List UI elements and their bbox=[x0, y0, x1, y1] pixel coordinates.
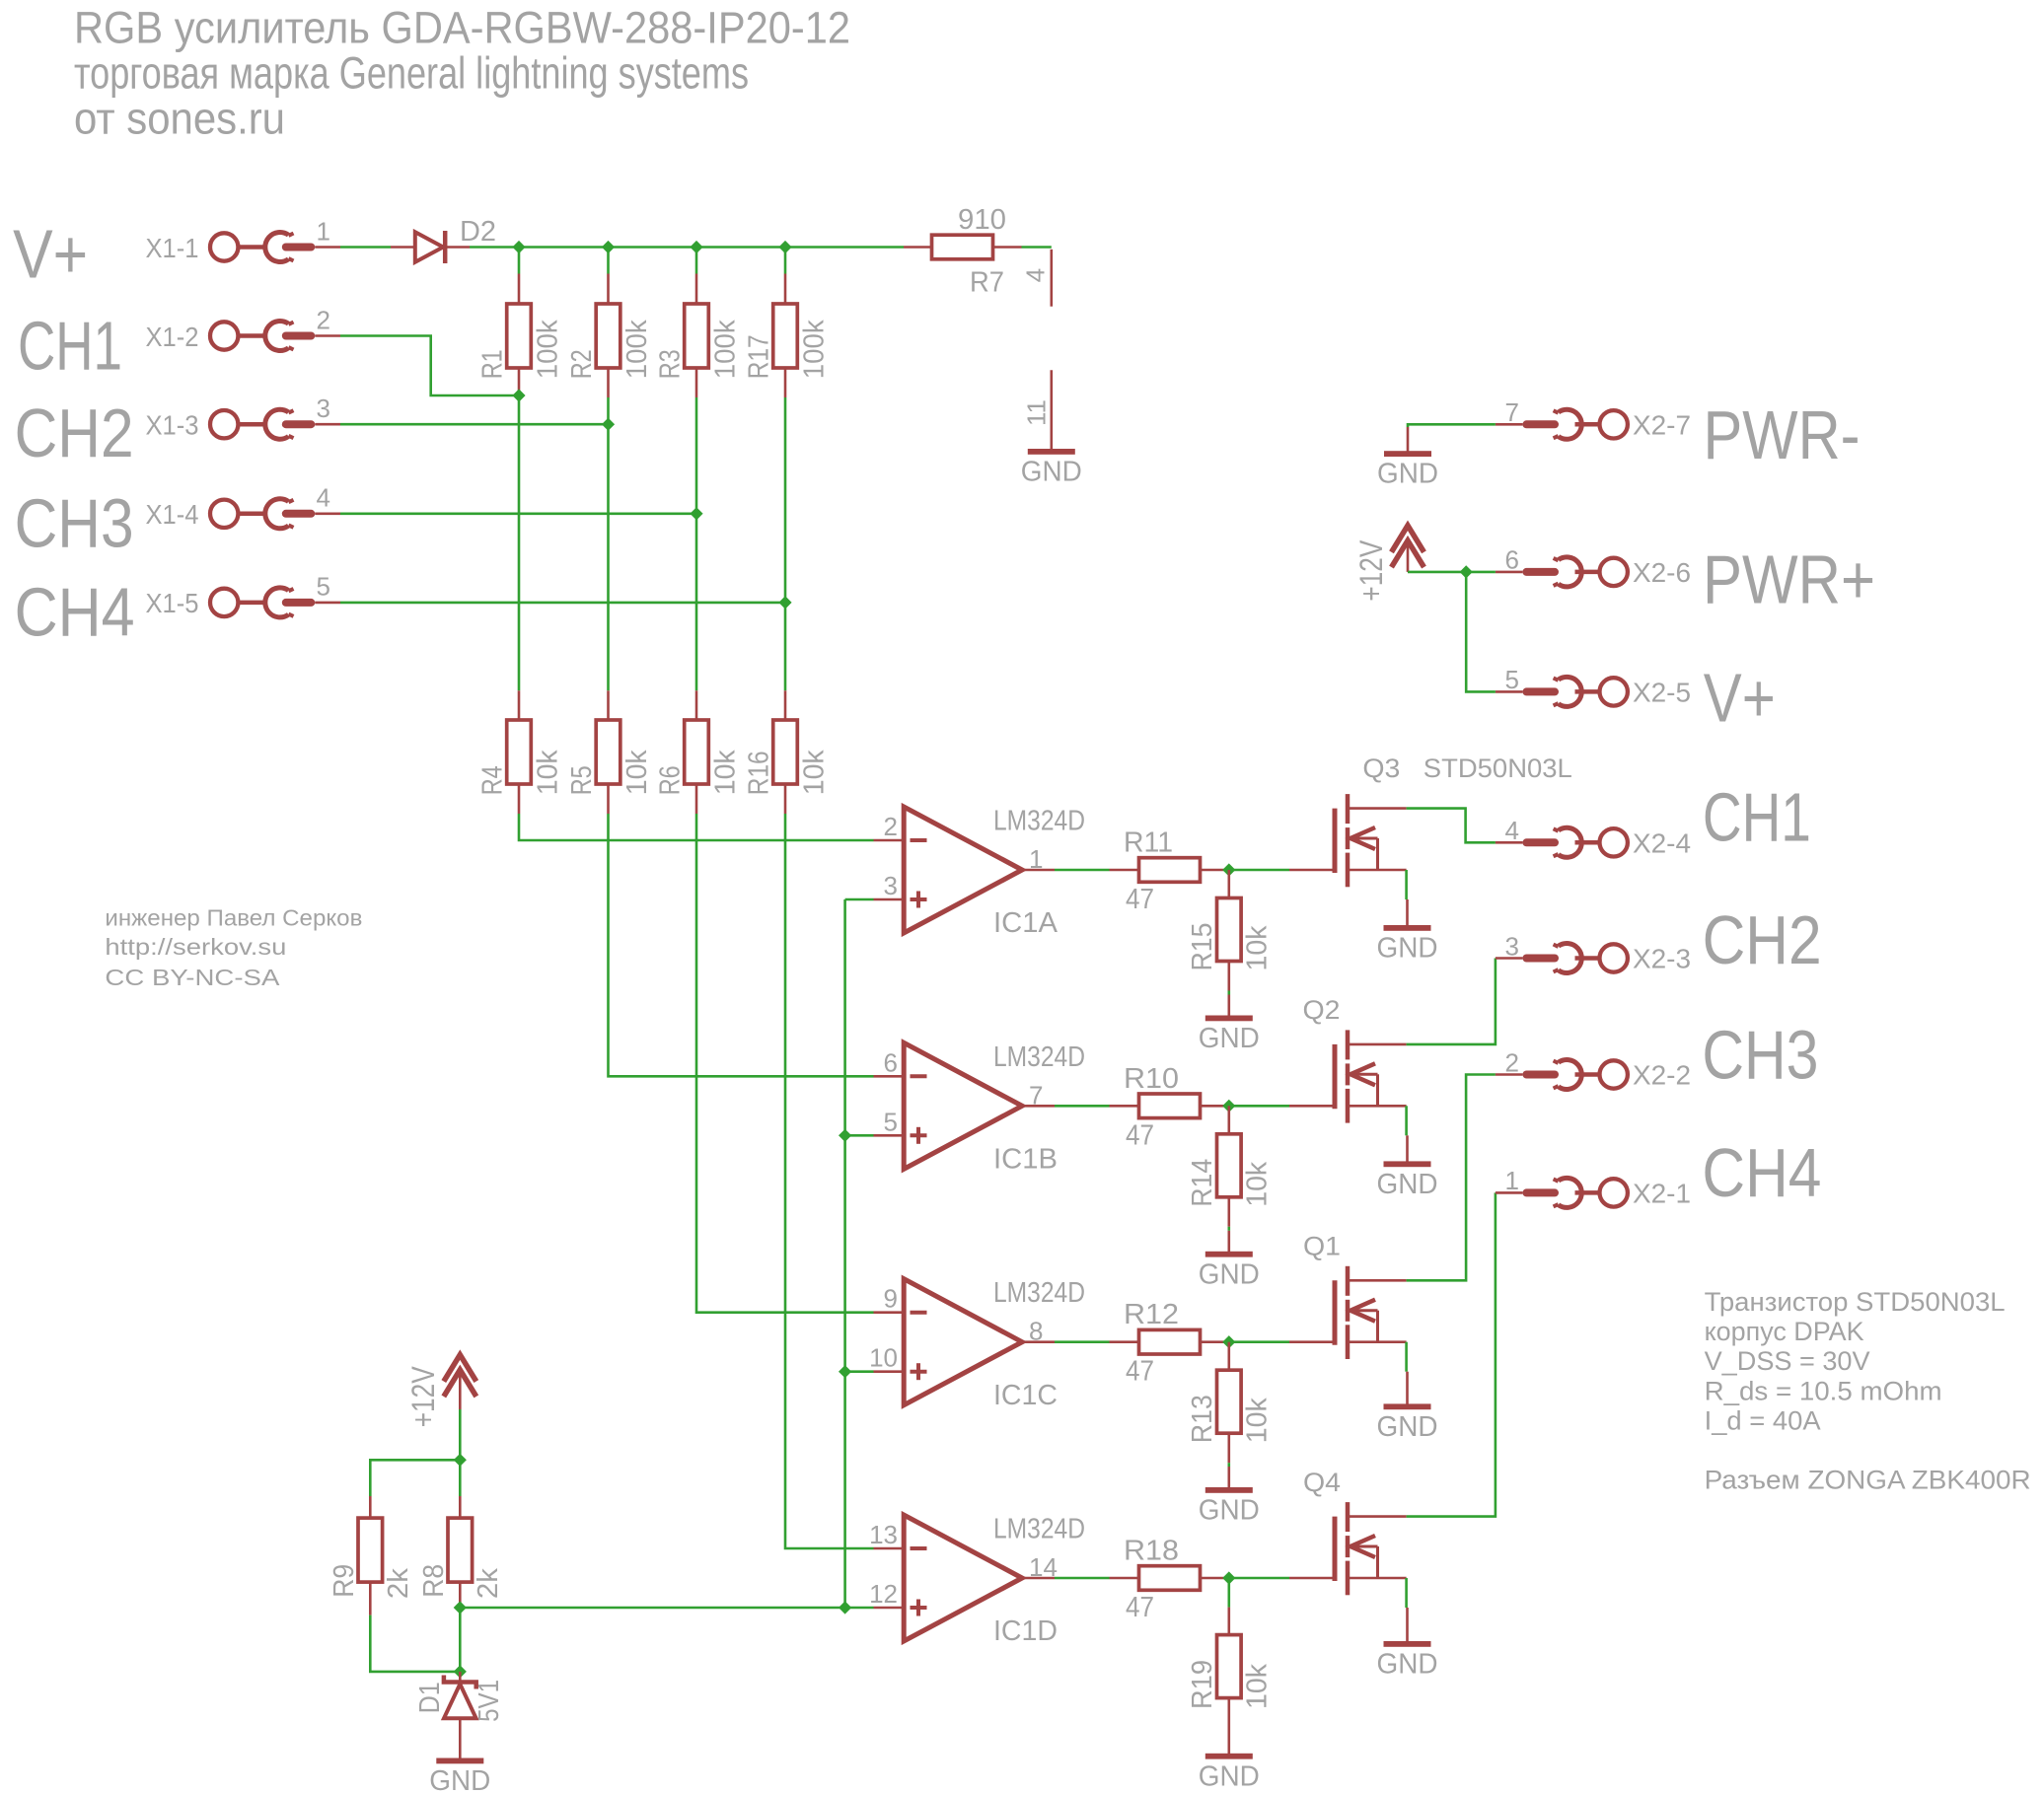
svg-text:2: 2 bbox=[1505, 1047, 1519, 1077]
+12V supply symbol at divider bbox=[444, 1355, 476, 1409]
diode D2 bbox=[391, 231, 470, 263]
pin stub top of R13 bbox=[1228, 1342, 1231, 1371]
svg-text:V_DSS = 30V: V_DSS = 30V bbox=[1705, 1346, 1870, 1376]
wire R15 to ground bbox=[1228, 991, 1231, 995]
svg-text:47: 47 bbox=[1126, 1119, 1154, 1151]
resistor R15 (10k) bbox=[1217, 898, 1242, 962]
pin stub right of R12 bbox=[1201, 1340, 1229, 1343]
pin stub bottom of R14 bbox=[1228, 1197, 1231, 1227]
pin stub left of R10 bbox=[1110, 1105, 1139, 1108]
wire R17 bottom to CH4 junction bbox=[784, 397, 787, 603]
wire IC1C output to R12 bbox=[1055, 1340, 1110, 1343]
pin stub top of R1 bbox=[518, 274, 521, 305]
pin stub top of R16 bbox=[784, 690, 787, 720]
svg-text:1: 1 bbox=[317, 216, 330, 246]
wire node to Q2 gate bbox=[1229, 1105, 1289, 1108]
svg-text:LM324D: LM324D bbox=[993, 1041, 1085, 1073]
connector X2-7 bbox=[1496, 409, 1628, 439]
pin stub bottom of R2 bbox=[607, 368, 610, 397]
connector X1-1 bbox=[210, 233, 340, 262]
svg-text:5: 5 bbox=[884, 1107, 898, 1136]
wire R7 to IC1 power pin 4 bbox=[1022, 246, 1052, 249]
junction bus at IC1D pin12 bbox=[839, 1601, 851, 1614]
op-amp IC1B bbox=[874, 1042, 1056, 1169]
svg-text:http://serkov.su: http://serkov.su bbox=[105, 934, 286, 960]
wire CH3 down to R6 bbox=[695, 514, 698, 691]
ground for Q2 source bbox=[1384, 1135, 1431, 1167]
svg-text:Разъем ZONGA ZBK400R: Разъем ZONGA ZBK400R bbox=[1705, 1466, 2031, 1495]
svg-text:8: 8 bbox=[1029, 1317, 1043, 1346]
pin stub bottom of R15 bbox=[1228, 962, 1231, 991]
svg-text:GND: GND bbox=[1377, 1649, 1438, 1681]
svg-text:X1-4: X1-4 bbox=[146, 499, 199, 530]
resistor R1 (100k) bbox=[507, 304, 532, 368]
pin stub top of R4 bbox=[518, 690, 521, 720]
connector X1-4 bbox=[210, 499, 340, 529]
wire V+ to R1 bbox=[518, 248, 521, 274]
wire R4 to IC1A pin2 bbox=[519, 814, 874, 840]
svg-text:R9: R9 bbox=[328, 1564, 360, 1598]
svg-text:от sones.ru: от sones.ru bbox=[74, 94, 285, 144]
wire CH1 net jog bbox=[340, 336, 519, 396]
svg-text:Q1: Q1 bbox=[1303, 1232, 1341, 1261]
resistor R16 (10k) bbox=[773, 720, 798, 784]
pin stub left of R18 bbox=[1110, 1577, 1139, 1580]
ground for R19 bbox=[1205, 1754, 1253, 1759]
svg-text:7: 7 bbox=[1029, 1080, 1043, 1110]
svg-text:2k: 2k bbox=[473, 1568, 504, 1599]
wire IC1D output to R18 bbox=[1055, 1577, 1110, 1580]
svg-text:D1: D1 bbox=[414, 1682, 446, 1713]
svg-text:9: 9 bbox=[884, 1284, 898, 1314]
resistor R6 (10k) bbox=[685, 720, 709, 784]
svg-text:CH2: CH2 bbox=[15, 395, 134, 471]
svg-text:Q2: Q2 bbox=[1303, 995, 1341, 1025]
svg-text:1: 1 bbox=[1505, 1166, 1519, 1195]
junction V+ rail x=706 bbox=[690, 241, 702, 253]
wire R6 to IC1C pin9 bbox=[696, 814, 874, 1313]
svg-text:100k: 100k bbox=[533, 320, 564, 379]
junction CH3 at R3 bottom bbox=[690, 507, 702, 520]
wire V+ rail bbox=[470, 246, 904, 249]
pin stub top of R15 bbox=[1228, 870, 1231, 898]
svg-text:CH1: CH1 bbox=[18, 307, 122, 384]
+12V supply symbol at X2-6 bbox=[1392, 526, 1424, 572]
junction R10/R14 node bbox=[1222, 1100, 1235, 1112]
svg-text:Q4: Q4 bbox=[1303, 1468, 1341, 1497]
wire Q3 source bbox=[1405, 870, 1408, 899]
wire +12V down bbox=[459, 1409, 462, 1460]
transistor Q1 (STD50N03L) bbox=[1289, 1266, 1407, 1359]
svg-text:13: 13 bbox=[869, 1520, 898, 1549]
svg-text:GND: GND bbox=[1199, 1495, 1260, 1527]
junction CH1 at R1 bottom bbox=[512, 389, 525, 401]
svg-text:6: 6 bbox=[884, 1047, 898, 1077]
svg-text:R16: R16 bbox=[743, 751, 774, 795]
junction CH4 at R17 bottom bbox=[778, 596, 791, 609]
pin stub bottom of R19 bbox=[1228, 1698, 1231, 1754]
wire V+ to R2 bbox=[607, 248, 610, 274]
op-amp IC1D bbox=[874, 1515, 1056, 1641]
svg-text:X2-5: X2-5 bbox=[1633, 677, 1691, 707]
pin stub left of R7 bbox=[904, 246, 932, 249]
svg-text:3: 3 bbox=[1505, 931, 1519, 961]
svg-text:47: 47 bbox=[1126, 884, 1154, 915]
wire Q2 drain to X2 bbox=[1407, 959, 1496, 1044]
svg-text:R12: R12 bbox=[1124, 1299, 1179, 1330]
wire R3 bottom to CH3 junction bbox=[695, 397, 698, 514]
svg-text:R_ds = 10.5 mOhm: R_ds = 10.5 mOhm bbox=[1705, 1376, 1942, 1405]
svg-text:X2-6: X2-6 bbox=[1633, 557, 1691, 588]
svg-text:R8: R8 bbox=[418, 1564, 450, 1598]
connector X2-3 bbox=[1496, 944, 1628, 973]
pin stub top of R5 bbox=[607, 690, 610, 720]
resistor R11 (47) bbox=[1139, 858, 1201, 883]
svg-text:R2: R2 bbox=[566, 349, 598, 379]
ground for D1 bbox=[436, 1758, 483, 1764]
svg-text:3: 3 bbox=[884, 871, 898, 900]
resistor R13 (10k) bbox=[1217, 1370, 1242, 1433]
svg-text:R18: R18 bbox=[1124, 1536, 1179, 1567]
svg-text:R6: R6 bbox=[654, 765, 686, 795]
resistor R3 (100k) bbox=[685, 304, 709, 368]
wire to X2-5 bbox=[1466, 572, 1496, 692]
svg-text:10k: 10k bbox=[1241, 1664, 1273, 1709]
IC1 power pin 4 stub bbox=[1051, 250, 1054, 307]
svg-text:RGB усилитель GDA-RGBW-288-IP2: RGB усилитель GDA-RGBW-288-IP20-12 bbox=[74, 2, 850, 52]
svg-text:6: 6 bbox=[1505, 545, 1519, 575]
svg-text:Q3: Q3 bbox=[1362, 753, 1400, 783]
ground for R15 bbox=[1205, 995, 1253, 1022]
svg-text:10k: 10k bbox=[1241, 1398, 1273, 1443]
pin stub bottom of R8 bbox=[459, 1582, 462, 1608]
op-amp IC1A bbox=[874, 807, 1056, 933]
wire Q2 source bbox=[1405, 1106, 1408, 1135]
pin stub right of R7 bbox=[993, 246, 1022, 249]
svg-text:GND: GND bbox=[1199, 1760, 1260, 1792]
svg-text:GND: GND bbox=[429, 1765, 490, 1794]
ground for IC1 pin 11 bbox=[1028, 449, 1075, 455]
svg-text:100k: 100k bbox=[710, 320, 742, 379]
pin stub bottom of R5 bbox=[607, 784, 610, 814]
wire X1-1 to D2 anode bbox=[340, 246, 391, 249]
svg-text:X2-1: X2-1 bbox=[1633, 1178, 1691, 1208]
svg-text:R4: R4 bbox=[476, 765, 508, 795]
pin stub bottom of R13 bbox=[1228, 1433, 1231, 1463]
op-amp IC1C bbox=[874, 1279, 1056, 1405]
pin stub top of R19 bbox=[1228, 1608, 1231, 1635]
svg-text:D2: D2 bbox=[460, 216, 496, 248]
resistor R19 (10k) bbox=[1217, 1635, 1242, 1698]
wire +12V to X2-6 bbox=[1408, 571, 1496, 574]
resistor R12 (47) bbox=[1139, 1329, 1201, 1354]
svg-text:4: 4 bbox=[1505, 816, 1519, 845]
svg-text:47: 47 bbox=[1126, 1592, 1154, 1623]
transistor Q2 (STD50N03L) bbox=[1289, 1030, 1407, 1122]
pin stub top of R6 bbox=[695, 690, 698, 720]
svg-text:910: 910 bbox=[958, 204, 1006, 236]
wire divider top to R8 bbox=[459, 1460, 462, 1496]
ground for Q3 source bbox=[1384, 899, 1431, 931]
svg-text:100k: 100k bbox=[799, 320, 831, 379]
wire Q4 source bbox=[1405, 1578, 1408, 1608]
wire CH2 net bbox=[340, 423, 609, 426]
junction bus at IC1C pin10 bbox=[839, 1365, 851, 1378]
pin stub top of R17 bbox=[784, 274, 787, 305]
resistor R18 (47) bbox=[1139, 1566, 1201, 1591]
svg-text:2: 2 bbox=[884, 812, 898, 841]
wire to R9 top bbox=[370, 1460, 460, 1496]
svg-text:R10: R10 bbox=[1124, 1063, 1179, 1095]
resistor R14 (10k) bbox=[1217, 1134, 1242, 1197]
wire IC1A output to R11 bbox=[1055, 869, 1110, 872]
wire IC1B output to R10 bbox=[1055, 1105, 1110, 1108]
pin stub bottom of R1 bbox=[518, 368, 521, 396]
svg-text:V+: V+ bbox=[1704, 659, 1776, 736]
svg-text:4: 4 bbox=[1021, 268, 1051, 282]
svg-text:CC BY-NC-SA: CC BY-NC-SA bbox=[105, 965, 280, 990]
connector X1-2 bbox=[210, 322, 340, 351]
svg-text:GND: GND bbox=[1199, 1258, 1260, 1290]
svg-text:5: 5 bbox=[317, 572, 330, 602]
svg-text:X1-3: X1-3 bbox=[146, 410, 199, 441]
svg-text:CH3: CH3 bbox=[1702, 1016, 1818, 1093]
svg-text:PWR+: PWR+ bbox=[1703, 541, 1875, 618]
ground for Q1 source bbox=[1384, 1372, 1431, 1410]
svg-text:10k: 10k bbox=[1241, 925, 1273, 970]
junction V+ rail x=526 bbox=[512, 241, 525, 253]
wire CH2 down to R5 bbox=[607, 424, 610, 690]
wire bus to IC1C pin10 bbox=[845, 1370, 874, 1373]
resistor R7 (910) bbox=[932, 235, 993, 259]
pin stub top of R14 bbox=[1228, 1106, 1231, 1134]
svg-text:R19: R19 bbox=[1187, 1660, 1218, 1709]
svg-text:STD50N03L: STD50N03L bbox=[1423, 753, 1572, 783]
wire bus to IC1B pin5 bbox=[845, 1134, 874, 1137]
pin stub bottom of R3 bbox=[695, 368, 698, 397]
svg-text:GND: GND bbox=[1377, 1411, 1438, 1443]
connector X2-6 bbox=[1496, 557, 1628, 587]
pin stub top of R2 bbox=[607, 274, 610, 305]
svg-text:2: 2 bbox=[317, 305, 330, 334]
wire Q3 drain to X2 bbox=[1407, 809, 1496, 843]
svg-text:5: 5 bbox=[1505, 665, 1519, 694]
junction V+ rail x=796 bbox=[778, 241, 791, 253]
transistor Q3 (STD50N03L) bbox=[1289, 794, 1407, 887]
junction at D1 cathode bbox=[454, 1665, 467, 1678]
svg-text:7: 7 bbox=[1505, 397, 1519, 427]
connector X2-1 bbox=[1496, 1178, 1628, 1207]
ground for Q4 source bbox=[1384, 1608, 1431, 1647]
resistor R17 (100k) bbox=[773, 304, 798, 368]
pin stub right of R18 bbox=[1201, 1577, 1229, 1580]
ground for R14 bbox=[1205, 1231, 1253, 1257]
pin stub bottom of R9 bbox=[369, 1582, 372, 1615]
wire reference bus vertical bbox=[843, 899, 846, 1608]
resistor R5 (10k) bbox=[596, 720, 620, 784]
svg-text:X1-5: X1-5 bbox=[146, 588, 199, 618]
svg-text:47: 47 bbox=[1126, 1356, 1154, 1388]
junction R18/R19 node bbox=[1222, 1571, 1235, 1584]
svg-text:X2-3: X2-3 bbox=[1633, 944, 1691, 974]
wire reference node down bbox=[459, 1608, 462, 1672]
wire V+ to R3 bbox=[695, 248, 698, 274]
pin stub top of R3 bbox=[695, 274, 698, 305]
svg-text:X2-4: X2-4 bbox=[1633, 827, 1691, 858]
wire node to Q4 gate bbox=[1229, 1577, 1289, 1580]
wire R13 to ground bbox=[1228, 1463, 1231, 1467]
junction reference node bbox=[454, 1601, 467, 1614]
pin stub right of R10 bbox=[1201, 1105, 1229, 1108]
svg-text:3: 3 bbox=[317, 394, 330, 423]
svg-text:CH4: CH4 bbox=[1702, 1134, 1821, 1211]
junction +12V/X2-6/X2-5 bbox=[1460, 565, 1473, 578]
pin stub left of R11 bbox=[1110, 869, 1139, 872]
svg-text:R15: R15 bbox=[1187, 923, 1218, 971]
svg-text:R11: R11 bbox=[1124, 827, 1173, 859]
resistor R10 (47) bbox=[1139, 1094, 1201, 1118]
ground for X2-7 (PWR-) bbox=[1384, 427, 1431, 457]
svg-text:R13: R13 bbox=[1187, 1395, 1218, 1443]
svg-text:R14: R14 bbox=[1187, 1159, 1218, 1207]
svg-text:R17: R17 bbox=[743, 334, 774, 379]
svg-text:CH2: CH2 bbox=[1703, 901, 1822, 978]
wire R16 to IC1D pin13 bbox=[785, 814, 874, 1548]
svg-text:X2-7: X2-7 bbox=[1633, 409, 1691, 440]
svg-text:IC1C: IC1C bbox=[993, 1380, 1058, 1411]
wire node to Q3 gate bbox=[1229, 869, 1289, 872]
svg-text:GND: GND bbox=[1377, 459, 1438, 490]
svg-text:+12V: +12V bbox=[405, 1366, 441, 1428]
wire CH1 down to R4 bbox=[518, 395, 521, 690]
svg-text:инженер Павел Серков: инженер Павел Серков bbox=[105, 905, 362, 931]
resistor R8 (2k) bbox=[448, 1518, 473, 1582]
svg-text:10: 10 bbox=[869, 1343, 898, 1373]
wire CH4 down to R16 bbox=[784, 603, 787, 690]
svg-text:IC1D: IC1D bbox=[993, 1615, 1058, 1647]
svg-text:2k: 2k bbox=[383, 1568, 414, 1599]
wire CH3 net bbox=[340, 512, 696, 515]
connector X1-5 bbox=[210, 588, 340, 617]
svg-text:R3: R3 bbox=[654, 349, 686, 379]
svg-text:LM324D: LM324D bbox=[993, 1514, 1085, 1545]
wire CH4 net bbox=[340, 602, 785, 605]
junction CH2 at R2 bottom bbox=[602, 418, 615, 431]
pin stub top of R8 bbox=[459, 1496, 462, 1518]
wire bus to IC1A pin3 bbox=[845, 898, 874, 901]
wire V+ to R17 bbox=[784, 248, 787, 274]
svg-text:GND: GND bbox=[1199, 1023, 1260, 1054]
junction V+ rail x=616.5 bbox=[602, 241, 615, 253]
junction bus at IC1B pin5 bbox=[839, 1129, 851, 1142]
svg-text:X2-2: X2-2 bbox=[1633, 1060, 1691, 1091]
wire R2 bottom to CH2 junction bbox=[607, 397, 610, 424]
svg-text:Транзистор STD50N03L: Транзистор STD50N03L bbox=[1705, 1287, 2006, 1317]
svg-text:R7: R7 bbox=[970, 267, 1004, 299]
svg-text:торговая марка General lightni: торговая марка General lightning systems bbox=[74, 48, 749, 99]
svg-text:10k: 10k bbox=[710, 750, 742, 795]
wire node to R19 bbox=[1228, 1578, 1231, 1608]
wire Q4 drain to X2 bbox=[1407, 1192, 1496, 1516]
svg-text:4: 4 bbox=[317, 483, 330, 513]
svg-text:CH3: CH3 bbox=[15, 484, 134, 561]
connector X2-5 bbox=[1496, 677, 1628, 706]
svg-text:100k: 100k bbox=[621, 320, 653, 379]
svg-text:CH1: CH1 bbox=[1703, 779, 1811, 856]
svg-text:11: 11 bbox=[1022, 399, 1052, 426]
pin stub left of R12 bbox=[1110, 1340, 1139, 1343]
svg-text:V+: V+ bbox=[13, 215, 88, 292]
pin stub bottom of R6 bbox=[695, 784, 698, 814]
svg-text:1: 1 bbox=[1029, 844, 1043, 874]
svg-text:12: 12 bbox=[869, 1579, 898, 1609]
svg-text:GND: GND bbox=[1021, 457, 1082, 488]
svg-text:PWR-: PWR- bbox=[1704, 396, 1861, 473]
wire R9 bottom bbox=[370, 1615, 460, 1672]
connector X2-2 bbox=[1496, 1060, 1628, 1090]
svg-text:10k: 10k bbox=[621, 750, 653, 795]
svg-text:5V1: 5V1 bbox=[474, 1680, 505, 1722]
svg-text:GND: GND bbox=[1377, 933, 1438, 965]
wire X2-7 to ground bbox=[1408, 424, 1496, 427]
svg-text:R1: R1 bbox=[476, 349, 508, 379]
pin stub bottom of R17 bbox=[784, 368, 787, 397]
svg-text:LM324D: LM324D bbox=[993, 806, 1085, 837]
svg-text:+12V: +12V bbox=[1353, 539, 1389, 602]
svg-text:10k: 10k bbox=[1241, 1161, 1273, 1206]
wire reference node to bus bbox=[460, 1607, 844, 1610]
svg-text:CH4: CH4 bbox=[15, 573, 135, 650]
pin stub bottom of R4 bbox=[518, 784, 521, 814]
svg-text:GND: GND bbox=[1377, 1169, 1438, 1200]
pin stub bottom of R16 bbox=[784, 784, 787, 814]
junction R11/R15 node bbox=[1222, 863, 1235, 876]
junction R12/R13 node bbox=[1222, 1335, 1235, 1348]
IC1 power pin 11 stub bbox=[1051, 370, 1054, 449]
resistor R9 (2k) bbox=[358, 1518, 383, 1582]
junction divider top bbox=[454, 1454, 467, 1467]
svg-text:R5: R5 bbox=[566, 765, 598, 795]
resistor R4 (10k) bbox=[507, 720, 532, 784]
pin stub top of R9 bbox=[369, 1496, 372, 1518]
ground for R13 bbox=[1205, 1467, 1253, 1493]
svg-text:корпус DPAK: корпус DPAK bbox=[1705, 1317, 1864, 1346]
resistor R2 (100k) bbox=[596, 304, 620, 368]
wire node to Q1 gate bbox=[1229, 1340, 1289, 1343]
wire Q1 source bbox=[1405, 1342, 1408, 1372]
svg-text:X1-2: X1-2 bbox=[146, 322, 199, 352]
wire bus to IC1D pin12 bbox=[845, 1607, 874, 1610]
wire Q1 drain to X2 bbox=[1407, 1075, 1496, 1281]
svg-text:IC1A: IC1A bbox=[993, 907, 1058, 939]
svg-text:X1-1: X1-1 bbox=[146, 233, 199, 263]
svg-text:IC1B: IC1B bbox=[993, 1144, 1058, 1176]
pin stub right of R11 bbox=[1201, 869, 1229, 872]
wire R14 to ground bbox=[1228, 1227, 1231, 1231]
svg-text:10k: 10k bbox=[799, 750, 831, 795]
svg-text:10k: 10k bbox=[533, 750, 564, 795]
connector X2-4 bbox=[1496, 827, 1628, 857]
transistor Q4 (STD50N03L) bbox=[1289, 1502, 1407, 1595]
wire R5 to IC1B pin6 bbox=[609, 814, 874, 1076]
svg-text:I_d = 40A: I_d = 40A bbox=[1705, 1405, 1821, 1435]
svg-text:LM324D: LM324D bbox=[993, 1277, 1085, 1309]
svg-text:14: 14 bbox=[1029, 1552, 1058, 1582]
connector X1-3 bbox=[210, 409, 340, 439]
zener diode D1 (5V1) bbox=[444, 1672, 476, 1758]
